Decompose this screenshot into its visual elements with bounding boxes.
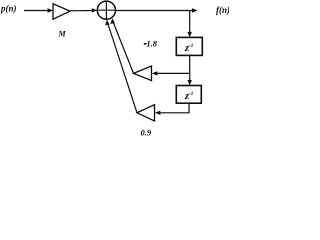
amplifier M (triangle) xyxy=(53,4,70,19)
wire second delay output to amplifier 0.9 xyxy=(160,103,190,113)
wire amplifier to summer xyxy=(70,10,93,12)
svg-text:0.9: 0.9 xyxy=(141,128,152,138)
svg-text:p(n): p(n) xyxy=(0,4,17,14)
wire first delay output down xyxy=(189,55,191,81)
delay box z^-1 (second) xyxy=(176,86,201,104)
wire feedback 0.9 to summer xyxy=(107,22,137,113)
svg-text:f(n): f(n) xyxy=(216,5,229,15)
wire branch to amplifier -1.8 xyxy=(157,72,190,74)
wire input to amplifier M xyxy=(24,10,49,12)
svg-text:z-1: z-1 xyxy=(184,43,193,54)
wire feedback -1.8 to summer xyxy=(113,22,134,74)
svg-text:z-1: z-1 xyxy=(184,91,193,102)
wire branch down to first delay xyxy=(189,11,191,34)
svg-text:M: M xyxy=(58,30,67,39)
delay box z^-1 (first) xyxy=(176,37,202,55)
amplifier 0.9 (triangle) xyxy=(137,105,155,121)
summer U1 (circle with plus) xyxy=(97,1,115,19)
amplifier -1.8 (triangle) xyxy=(134,66,152,81)
wire summer to output f(n) xyxy=(116,10,194,12)
